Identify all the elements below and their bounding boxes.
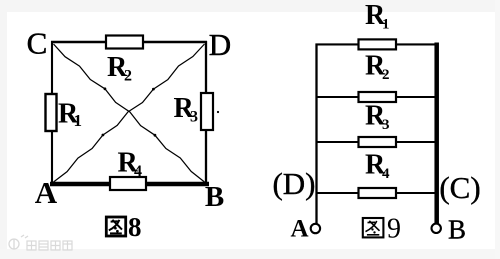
label R1 (58, 99, 82, 131)
caption 图8 (106, 212, 141, 242)
junction dot on diagonal C-B lower (154, 134, 157, 137)
label R1 (365, 0, 390, 33)
label R3 (365, 101, 390, 134)
label R2 (107, 52, 132, 85)
svg-text:2: 2 (124, 68, 132, 85)
wire bottom edge A-B (bold) (50, 182, 209, 187)
resistor R3 box (359, 137, 397, 147)
svg-text:1: 1 (74, 111, 83, 130)
junction dot on diagonal D-A (152, 88, 155, 91)
svg-text:A: A (290, 216, 308, 243)
resistor R1 box (359, 39, 397, 49)
svg-text:B: B (448, 215, 466, 245)
label R2 (365, 51, 390, 84)
terminal circle B (432, 224, 441, 233)
svg-text:A: A (35, 175, 58, 210)
watermark text blobs (27, 241, 72, 250)
wire right rail (bold) (434, 43, 439, 224)
junction dot on diagonal C-B (104, 87, 107, 90)
wire top edge C-D (51, 41, 207, 44)
svg-text:3: 3 (382, 117, 390, 133)
svg-text:(D): (D) (272, 166, 315, 201)
stray dot right of R3 (217, 111, 219, 113)
svg-text:9: 9 (387, 214, 401, 245)
label R4 (118, 148, 143, 181)
resistor R2 box on top edge (106, 36, 143, 49)
svg-text:B: B (205, 181, 224, 213)
resistor R1 box on left edge (46, 94, 57, 131)
terminal circle A (311, 224, 320, 233)
resistor R2 box (359, 92, 397, 102)
caption 图9 (363, 214, 401, 245)
svg-text:D: D (209, 27, 231, 62)
label R4 (365, 150, 390, 183)
svg-text:C: C (27, 26, 48, 61)
wire right edge D-B (205, 41, 207, 185)
resistor R4 box (359, 188, 397, 198)
wire rung 3 (316, 141, 439, 143)
wire rung 4 (316, 192, 439, 194)
junction dot on diagonal D-A lower (102, 134, 105, 137)
wire left rail (315, 44, 317, 225)
svg-text:1: 1 (382, 17, 390, 33)
wire diagonal C-B (54, 44, 205, 182)
svg-text:2: 2 (382, 67, 390, 83)
wire rung 2 (316, 96, 439, 98)
resistor R4 box on bottom edge (110, 177, 146, 190)
svg-text:3: 3 (190, 109, 198, 126)
wire rung 1 (316, 43, 439, 45)
svg-text:(C): (C) (439, 170, 480, 205)
svg-text:8: 8 (128, 212, 142, 242)
watermark logo (9, 235, 28, 249)
svg-text:4: 4 (134, 163, 142, 180)
wire left edge C-A (51, 41, 53, 185)
label R3 (174, 93, 199, 126)
wire diagonal D-A (54, 44, 205, 182)
resistor R3 box on right edge (201, 93, 213, 130)
svg-text:4: 4 (382, 166, 390, 182)
